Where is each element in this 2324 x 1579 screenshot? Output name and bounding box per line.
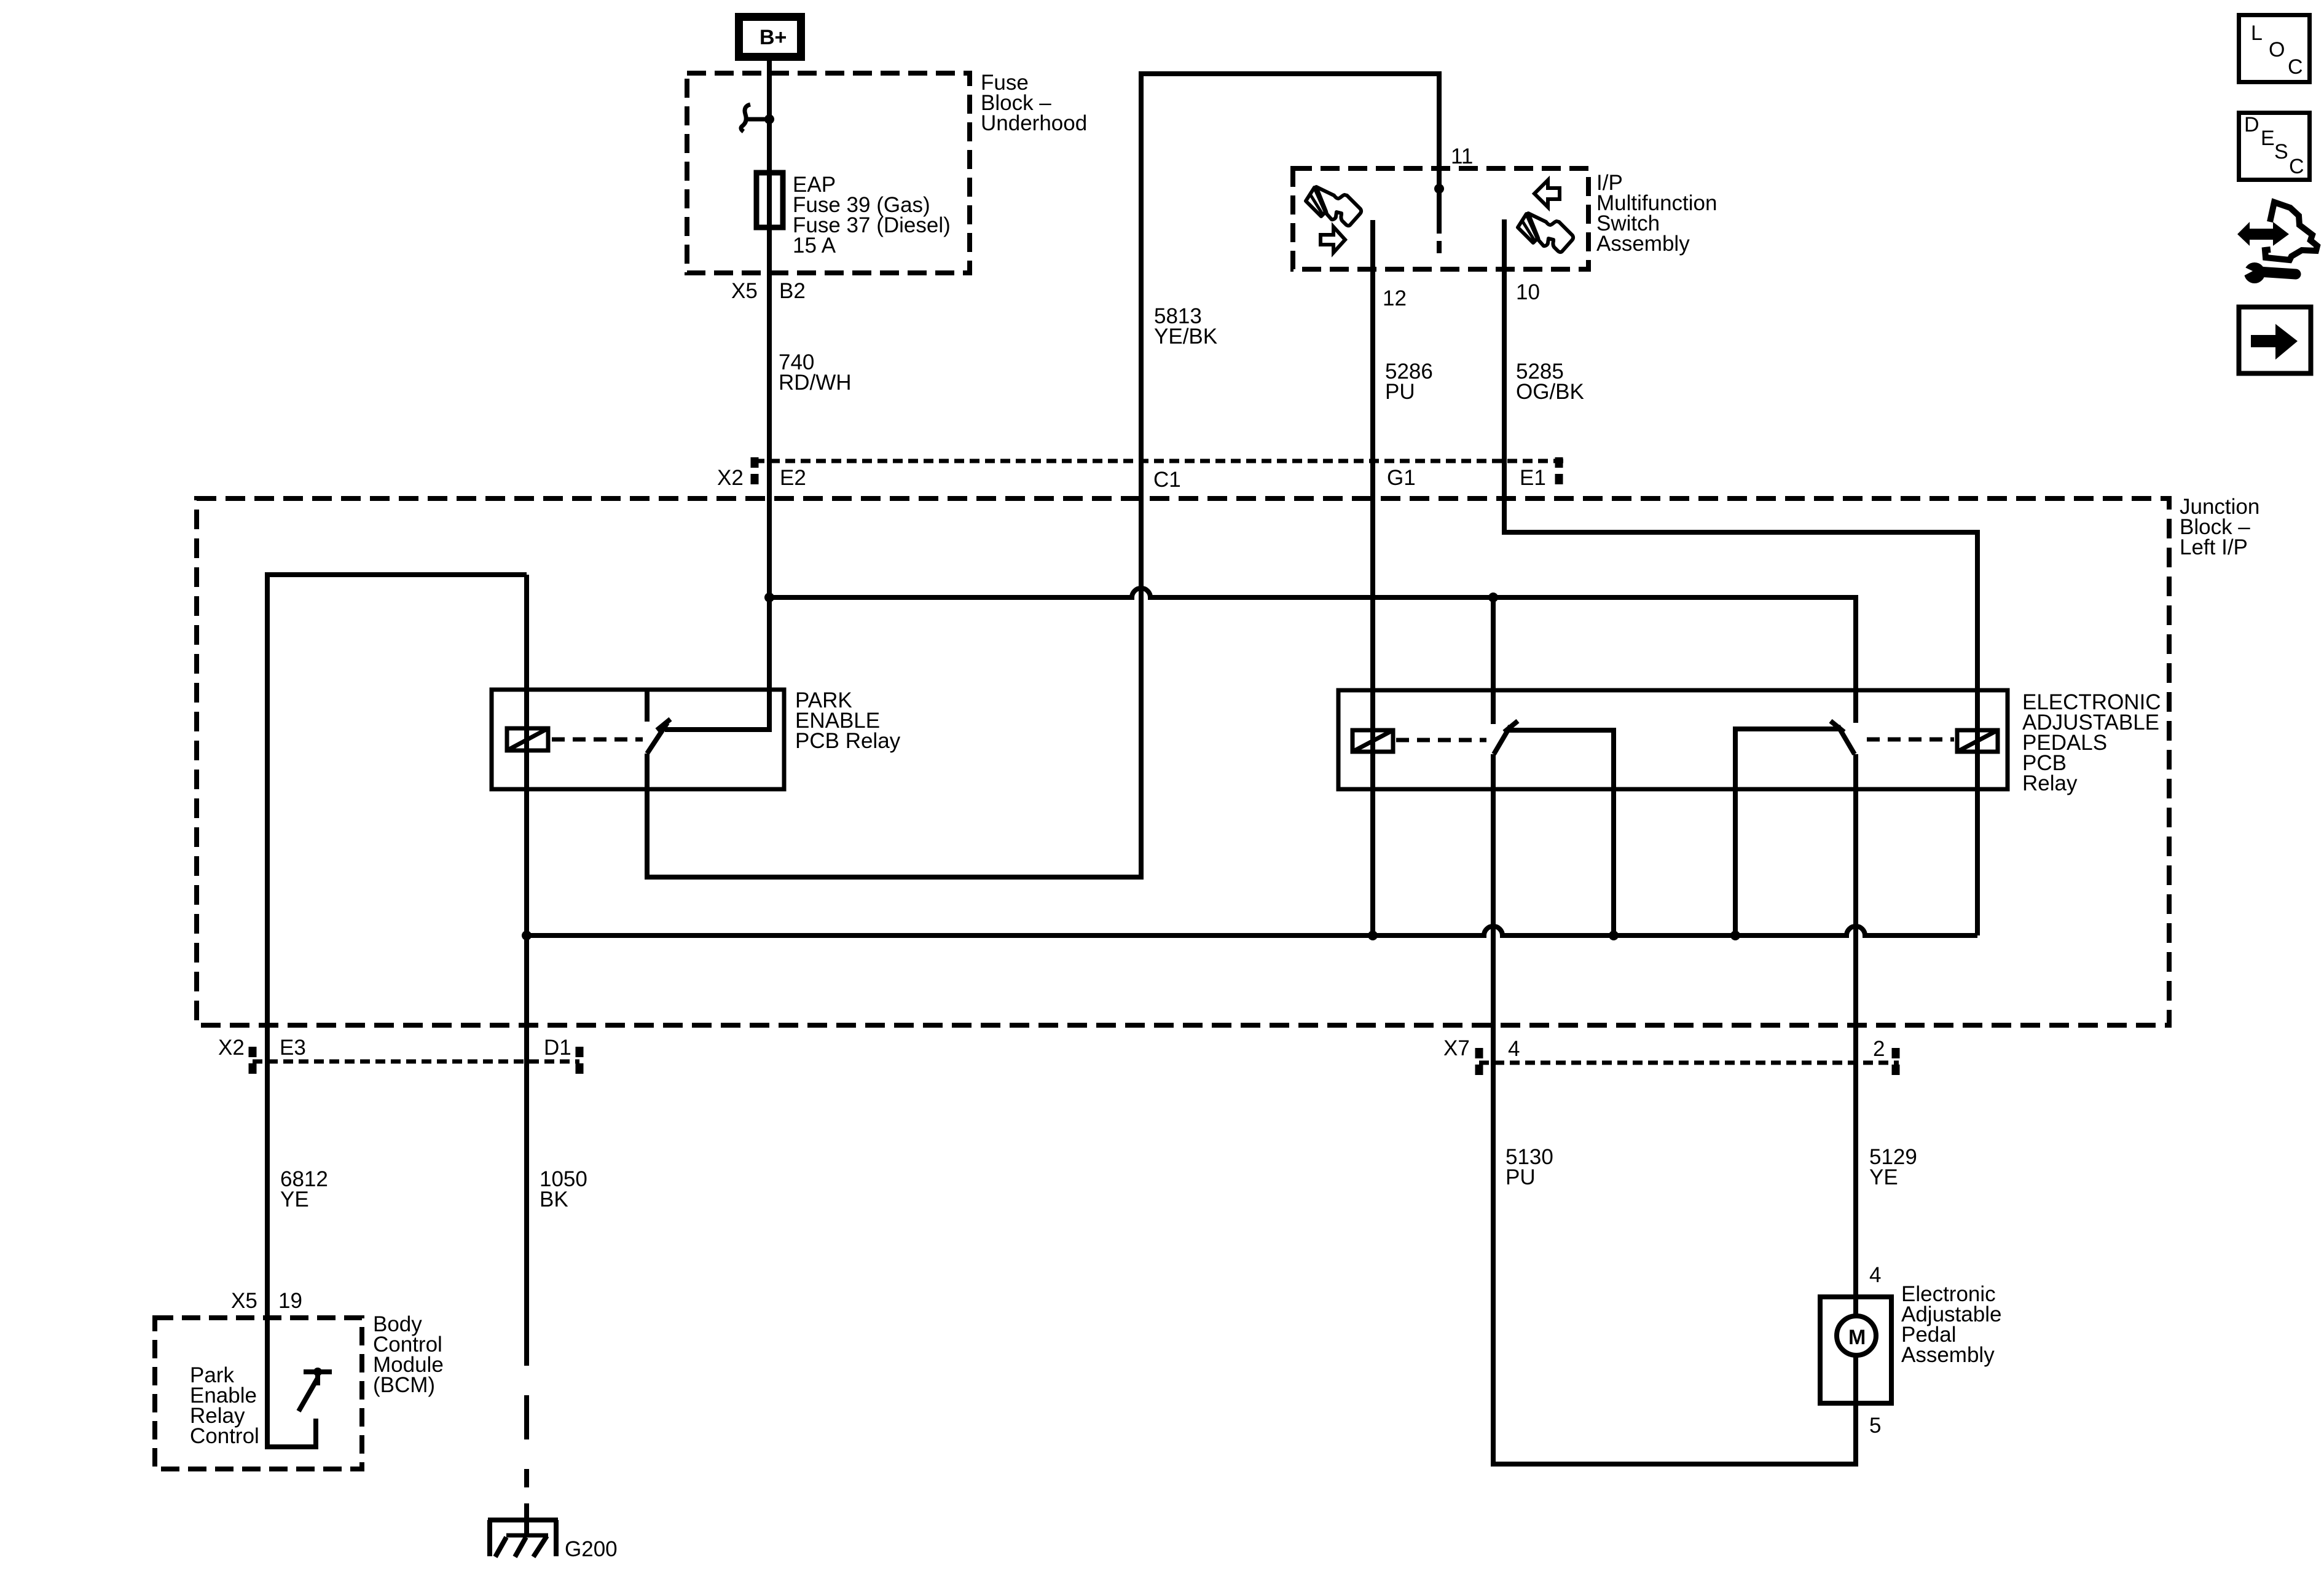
svg-text:C: C: [2289, 155, 2304, 178]
node feed junction dot at 740: [764, 593, 774, 602]
label body control module BCM: [373, 1312, 444, 1397]
icon shoe pedal left: [1306, 187, 1361, 226]
wire 5813 YE/BK from park relay switch up over to I/P switch pin 11: [647, 74, 1439, 877]
label wire 740 RD/WH: [779, 350, 852, 395]
svg-text:2: 2: [1873, 1037, 1885, 1061]
label electronic adjustable pedals PCB relay: [2022, 690, 2161, 795]
svg-text:E1: E1: [1520, 466, 1546, 490]
svg-text:YE: YE: [280, 1187, 309, 1211]
wire ground rail with hops over 5130 and 5129: [527, 926, 1977, 935]
wire park coil vertical down to ground rail and D1: [524, 575, 529, 1321]
icon block arrow pointing left (right side): [1534, 180, 1560, 207]
label I/P multifunction switch assembly: [1596, 171, 1717, 256]
svg-text:PU: PU: [1505, 1165, 1536, 1189]
battery B+ symbol: [739, 17, 801, 57]
svg-text:YE: YE: [1869, 1165, 1898, 1189]
connector X2 top row dashed line: [755, 459, 1564, 463]
svg-text:(BCM): (BCM): [373, 1373, 435, 1397]
svg-text:19: 19: [278, 1289, 302, 1313]
wire park coil feed from BCM node E3: [267, 575, 527, 1447]
wire 5130 PU left switch pivot down to motor return: [1493, 754, 1856, 1464]
svg-text:G1: G1: [1387, 466, 1416, 490]
connector X7 row end brackets: [1479, 1048, 1896, 1077]
node rail dot at right switch bar: [1730, 931, 1740, 940]
node rail dot at left coil return: [1368, 931, 1378, 940]
node feed junction dot at left EAP switch: [1488, 593, 1498, 602]
pin label X5 B2 at fuse block: [731, 279, 806, 303]
switch blade tick left EAP: [1504, 721, 1518, 732]
svg-text:YE/BK: YE/BK: [1154, 325, 1217, 348]
pin labels X7 4 2: [1443, 1036, 1885, 1061]
label wire 5285 OG/BK: [1516, 360, 1584, 404]
label fuse block name: [981, 71, 1087, 135]
svg-text:C1: C1: [1153, 468, 1181, 492]
wire left EAP switch bar to rail: [1505, 730, 1614, 935]
icon arrow box: [2239, 307, 2311, 374]
svg-text:PU: PU: [1385, 380, 1415, 404]
electronic adjustable pedals PCB relay box: [1338, 690, 2008, 789]
node fuse junction dot: [764, 114, 774, 124]
svg-text:M: M: [1848, 1326, 1866, 1349]
svg-text:RD/WH: RD/WH: [779, 371, 852, 395]
svg-text:D: D: [2244, 113, 2259, 136]
svg-text:OG/BK: OG/BK: [1516, 380, 1584, 404]
svg-text:G200: G200: [565, 1537, 618, 1561]
svg-text:X5: X5: [731, 279, 758, 303]
label wire 6812 YE: [280, 1167, 328, 1211]
svg-text:Left I/P: Left I/P: [2180, 535, 2248, 559]
label park enable relay control: [190, 1363, 259, 1448]
dashed actuator link left EAP: [1396, 738, 1486, 742]
label electronic adjustable pedal assembly: [1901, 1282, 2001, 1367]
wire 740 feed branch with hop over 5813: [769, 588, 1856, 723]
svg-text:10: 10: [1516, 280, 1540, 304]
switch blade left EAP: [1494, 726, 1510, 754]
pin labels X2 E2 C1 G1 E1: [717, 466, 1546, 492]
svg-text:X7: X7: [1443, 1036, 1470, 1060]
svg-text:O: O: [2269, 38, 2285, 61]
relay coil K-park: [507, 728, 548, 750]
svg-text:S: S: [2274, 140, 2288, 163]
label wire 5813 YE/BK: [1154, 304, 1217, 348]
junction block left I/P dashed box: [197, 498, 2169, 1025]
wire 740 RD/WH from B+ through fuse down into park relay feed bar: [665, 61, 769, 730]
dashed actuator link right EAP: [1867, 738, 1954, 742]
wire 1050 BK dashed segment: [524, 1321, 529, 1487]
motor M circle: [1837, 1316, 1876, 1355]
svg-text:X2: X2: [218, 1036, 245, 1060]
svg-text:L: L: [2251, 22, 2263, 45]
BCM driver switch lever: [299, 1378, 318, 1411]
park enable PCB relay box: [492, 690, 784, 789]
label wire 1050 BK: [540, 1167, 587, 1211]
svg-text:Assembly: Assembly: [1901, 1343, 1995, 1367]
relay coil K-left EAP: [1352, 730, 1393, 752]
wire park relay fixed contact stub: [645, 690, 650, 722]
wire 5129 YE right switch pivot down to motor: [1853, 754, 1858, 1318]
svg-text:4: 4: [1508, 1037, 1520, 1061]
svg-text:B2: B2: [779, 279, 806, 303]
svg-text:Underhood: Underhood: [981, 111, 1087, 135]
svg-text:Relay: Relay: [2022, 771, 2078, 795]
switch blade tick park relay: [657, 719, 670, 730]
svg-text:E: E: [2261, 127, 2275, 150]
wire 1050 BK stub to ground: [524, 1503, 529, 1520]
svg-text:12: 12: [1383, 286, 1407, 310]
node rail dot at left switch bar: [1609, 931, 1619, 940]
switch blade tick right EAP: [1831, 721, 1844, 732]
svg-text:15 A: 15 A: [793, 234, 836, 258]
connector X7 row dashed line: [1479, 1061, 1899, 1065]
svg-text:X5: X5: [231, 1289, 257, 1313]
pin label X5 19 at BCM: [231, 1289, 302, 1313]
svg-text:4: 4: [1869, 1263, 1881, 1287]
svg-text:BK: BK: [540, 1187, 568, 1211]
node rail dot at park coil return: [522, 931, 532, 940]
wire 5286 PU pin 12 down to EAP left relay coil and rail: [1370, 220, 1375, 935]
node pin 11 junction dot: [1434, 184, 1444, 194]
pin labels X2 E3 D1: [218, 1036, 571, 1060]
svg-text:Control: Control: [190, 1424, 259, 1448]
connector X2 bottom row end brackets: [253, 1047, 579, 1076]
label junction block left I/P: [2180, 495, 2259, 559]
label park enable PCB relay: [795, 688, 901, 753]
wire 5285 OG/BK pin 10 down and over to EAP right relay coil and rail: [1504, 219, 1977, 935]
switch blade right EAP: [1838, 726, 1855, 754]
body control module BCM dashed box: [155, 1318, 362, 1469]
BCM driver contact bar and stub: [304, 1372, 332, 1385]
relay coil K-right EAP: [1957, 730, 1998, 752]
connector X2 bottom row dashed line: [253, 1060, 579, 1064]
icon diagnostic wrench with double arrow: [2237, 202, 2317, 283]
label wire 5286 PU: [1385, 360, 1433, 404]
motor pedal assembly box: [1820, 1297, 1891, 1403]
ground G200 symbol: [488, 1520, 558, 1557]
svg-text:Assembly: Assembly: [1596, 232, 1690, 256]
label fuse EAP value: [793, 173, 951, 258]
I/P multifunction switch assembly dashed box: [1293, 168, 1588, 269]
switch blade park relay: [647, 723, 667, 754]
svg-text:C: C: [2288, 55, 2303, 79]
icon shoe pedal right: [1518, 213, 1573, 252]
icon block arrow pointing right (left side): [1321, 227, 1345, 253]
label wire 5130 PU: [1505, 1145, 1553, 1189]
svg-text:5: 5: [1869, 1414, 1881, 1438]
connector X2 top row end brackets: [755, 457, 1559, 487]
svg-text:E2: E2: [780, 466, 806, 490]
icon DESC box: [2239, 113, 2310, 180]
svg-text:11: 11: [1451, 144, 1473, 168]
svg-text:D1: D1: [544, 1036, 571, 1060]
label wire 5129 YE: [1869, 1145, 1917, 1189]
dashed actuator link park relay: [552, 738, 643, 742]
svg-text:X2: X2: [717, 466, 744, 490]
svg-text:B+: B+: [760, 26, 787, 49]
fuse EAP body rectangle: [756, 173, 783, 227]
fuse element hook symbol: [741, 104, 768, 132]
svg-text:E3: E3: [280, 1036, 306, 1060]
node BCM contact dot: [313, 1368, 322, 1376]
icon LOC box: [2239, 15, 2310, 82]
wire left EAP switch feed stub: [1491, 597, 1496, 724]
svg-text:PCB Relay: PCB Relay: [795, 729, 901, 753]
wire right EAP switch bar to rail: [1735, 729, 1840, 935]
wire pin 11 end dash: [1437, 241, 1442, 253]
fuse block underhood dashed box: [687, 73, 970, 273]
